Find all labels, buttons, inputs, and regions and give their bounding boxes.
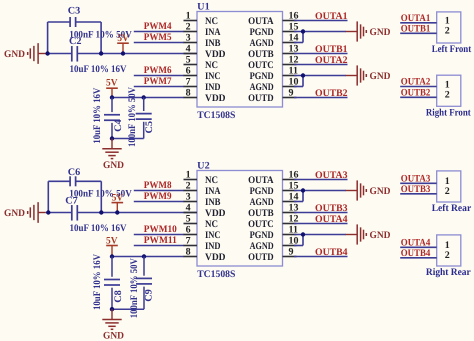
wire net OUTB1 <box>294 44 348 55</box>
capacitor C5 <box>112 86 155 147</box>
svg-text:OUTB1: OUTB1 <box>401 24 431 35</box>
svg-text:OUTB4: OUTB4 <box>401 248 431 259</box>
svg-text:C6: C6 <box>68 167 81 178</box>
ground GND <box>346 21 391 41</box>
svg-text:VDD: VDD <box>205 252 226 263</box>
svg-text:TC1508S: TC1508S <box>197 269 236 280</box>
svg-text:IND: IND <box>205 241 221 252</box>
pin 3 <box>184 192 221 208</box>
node junction <box>45 51 49 55</box>
node junction <box>110 254 114 258</box>
wire net PWM10 <box>134 224 184 235</box>
wire net PWM9 <box>134 191 184 202</box>
node junction <box>110 95 114 99</box>
svg-text:PWM4: PWM4 <box>144 21 172 32</box>
pin 1 <box>184 170 219 186</box>
pin 7 <box>184 236 221 252</box>
ground GND (earth) <box>102 309 124 341</box>
capacitor C6 <box>68 167 133 200</box>
svg-text:NC: NC <box>205 175 218 186</box>
wire net OUTA1 <box>294 11 348 22</box>
svg-text:6: 6 <box>186 66 191 77</box>
svg-text:PWM8: PWM8 <box>144 180 172 191</box>
svg-text:INA: INA <box>205 186 221 197</box>
svg-text:OUTA4: OUTA4 <box>315 214 348 225</box>
pin 14 <box>250 33 299 49</box>
wire net OUTA2 <box>400 77 437 88</box>
svg-text:VDD: VDD <box>205 93 226 104</box>
svg-text:Right Rear: Right Rear <box>426 267 471 278</box>
wire net OUTB2 <box>294 88 348 99</box>
svg-text:OUTA2: OUTA2 <box>401 77 431 88</box>
wire capacitor loop <box>48 22 102 54</box>
power ground GND (left rail) <box>4 43 46 64</box>
node junction <box>46 210 50 214</box>
svg-text:OUTB4: OUTB4 <box>315 247 348 258</box>
svg-text:AGND: AGND <box>250 38 274 49</box>
capacitor C7 <box>65 196 127 234</box>
svg-text:10uF 10% 16V: 10uF 10% 16V <box>92 87 103 144</box>
svg-text:5: 5 <box>186 214 191 225</box>
svg-text:OUTA2: OUTA2 <box>315 55 348 66</box>
svg-text:OUTA4: OUTA4 <box>401 238 431 249</box>
svg-text:10uF 10% 16V: 10uF 10% 16V <box>70 223 128 234</box>
svg-text:3: 3 <box>186 33 191 44</box>
svg-text:OUTB2: OUTB2 <box>401 88 431 99</box>
wire net PWM5 <box>134 32 184 43</box>
svg-text:9: 9 <box>289 88 294 99</box>
capacitor C8 <box>92 253 124 310</box>
svg-text:100nF 10% 50V: 100nF 10% 50V <box>129 258 140 319</box>
wire net PWM7 <box>134 76 184 87</box>
svg-text:9: 9 <box>289 247 294 258</box>
node junction <box>110 136 114 140</box>
wire pins to ground <box>294 32 346 43</box>
svg-text:GND: GND <box>370 230 391 241</box>
pin 8 <box>184 247 226 263</box>
pin 15 <box>250 22 299 38</box>
svg-text:GND: GND <box>103 160 124 171</box>
ground GND <box>346 180 391 200</box>
svg-text:OUTC: OUTC <box>248 219 274 230</box>
svg-text:PGND: PGND <box>250 71 274 82</box>
wire net OUTB4 <box>294 247 348 258</box>
pin 9 <box>248 247 296 263</box>
svg-text:PGND: PGND <box>250 230 274 241</box>
svg-text:5V: 5V <box>117 33 129 44</box>
node junction <box>99 210 103 214</box>
svg-text:OUTB: OUTB <box>248 208 274 219</box>
svg-text:2: 2 <box>445 26 450 37</box>
pin 4 <box>184 203 226 219</box>
svg-text:2: 2 <box>445 186 450 197</box>
wire net OUTB3 <box>400 184 437 195</box>
wire net PWM11 <box>134 235 184 246</box>
node junction <box>142 95 146 99</box>
power ground GND (left rail) <box>4 202 46 223</box>
pin 11 <box>250 66 298 82</box>
wire pins to ground <box>294 191 346 202</box>
wire net PWM4 <box>134 21 184 32</box>
pin 13 <box>248 203 298 219</box>
svg-text:OUTB2: OUTB2 <box>315 88 348 99</box>
svg-text:OUTB3: OUTB3 <box>401 184 431 195</box>
node junction <box>301 29 305 33</box>
svg-text:1: 1 <box>186 170 191 181</box>
pin 3 <box>184 33 221 49</box>
pin 16 <box>248 170 298 186</box>
pin 11 <box>250 225 298 241</box>
wire net OUTB4 <box>400 248 437 259</box>
svg-text:INA: INA <box>205 27 221 38</box>
svg-text:NC: NC <box>205 16 218 27</box>
svg-text:OUTA1: OUTA1 <box>315 11 348 22</box>
svg-text:C3: C3 <box>68 6 81 17</box>
pin 14 <box>250 192 299 208</box>
wire net OUTA4 <box>400 238 437 249</box>
svg-text:NC: NC <box>205 219 218 230</box>
power 5V <box>112 192 124 212</box>
svg-text:VDD: VDD <box>205 208 226 219</box>
svg-text:OUTA3: OUTA3 <box>315 170 348 181</box>
wire pins to ground <box>294 76 346 87</box>
svg-text:TC1508S: TC1508S <box>197 110 236 121</box>
pin 1 <box>184 11 219 27</box>
node junction <box>142 254 146 258</box>
pin 15 <box>250 181 299 197</box>
svg-text:INC: INC <box>205 71 221 82</box>
connector P3 Left Rear <box>432 171 472 214</box>
svg-text:GND: GND <box>370 186 391 197</box>
svg-text:IND: IND <box>205 82 221 93</box>
svg-text:PWM7: PWM7 <box>144 76 172 87</box>
wire net OUTA3 <box>400 174 437 185</box>
svg-text:8: 8 <box>186 88 191 99</box>
connector P4 Right Rear <box>426 235 471 278</box>
pin 5 <box>184 214 219 230</box>
wire net OUTB3 <box>294 203 348 214</box>
svg-text:8: 8 <box>186 247 191 258</box>
svg-text:10uF 10% 16V: 10uF 10% 16V <box>70 64 128 75</box>
svg-text:5: 5 <box>186 55 191 66</box>
pin 2 <box>184 181 222 197</box>
svg-text:INC: INC <box>205 230 221 241</box>
power 5V <box>117 33 129 54</box>
pin 9 <box>248 88 296 104</box>
pin 13 <box>248 44 298 60</box>
pin 12 <box>248 214 298 230</box>
ground GND <box>346 65 391 85</box>
svg-text:C5: C5 <box>144 121 155 134</box>
power 5V (VDD decoupling) <box>106 78 118 98</box>
pin 10 <box>250 236 299 252</box>
wire net PWM8 <box>134 180 184 191</box>
svg-text:OUTD: OUTD <box>248 252 274 263</box>
svg-text:C9: C9 <box>144 289 155 302</box>
connector P2 Right Front <box>426 75 471 118</box>
svg-text:7: 7 <box>186 236 191 247</box>
svg-text:PGND: PGND <box>250 186 274 197</box>
connector P1 Left Front <box>432 12 472 55</box>
svg-text:2: 2 <box>445 250 450 261</box>
ground GND <box>346 224 391 244</box>
svg-text:7: 7 <box>186 77 191 88</box>
svg-text:U2: U2 <box>197 160 210 171</box>
svg-text:GND: GND <box>370 27 391 38</box>
wire net OUTA3 <box>294 170 348 181</box>
svg-text:100nF 10% 50V: 100nF 10% 50V <box>127 86 138 147</box>
svg-text:PWM11: PWM11 <box>144 235 177 246</box>
IC U2 TC1508S <box>197 160 283 280</box>
svg-text:GND: GND <box>103 331 124 341</box>
svg-text:OUTA: OUTA <box>248 16 274 27</box>
svg-text:Left Front: Left Front <box>432 44 472 55</box>
svg-text:6: 6 <box>186 225 191 236</box>
svg-text:PWM5: PWM5 <box>144 32 172 43</box>
capacitor C4 <box>92 87 124 144</box>
svg-text:2: 2 <box>445 90 450 101</box>
svg-text:GND: GND <box>4 208 25 219</box>
svg-text:4: 4 <box>186 44 191 55</box>
node junction <box>301 73 305 77</box>
pin 16 <box>248 11 298 27</box>
svg-text:PWM10: PWM10 <box>144 224 177 235</box>
wire pins to ground <box>294 235 346 246</box>
svg-text:OUTA1: OUTA1 <box>401 13 431 24</box>
svg-text:OUTA: OUTA <box>248 175 274 186</box>
svg-text:U1: U1 <box>197 1 210 12</box>
svg-text:AGND: AGND <box>250 82 274 93</box>
svg-text:AGND: AGND <box>250 197 274 208</box>
svg-text:2: 2 <box>186 22 191 33</box>
node junction <box>121 51 125 55</box>
wire VDD rail <box>46 53 197 55</box>
svg-text:OUTA3: OUTA3 <box>401 174 431 185</box>
pin 6 <box>184 66 221 82</box>
svg-text:NC: NC <box>205 60 218 71</box>
pin 5 <box>184 55 219 71</box>
pin 10 <box>250 77 299 93</box>
node junction <box>110 307 114 311</box>
IC U1 TC1508S <box>197 1 283 121</box>
svg-text:INB: INB <box>205 38 221 49</box>
wire decoupling rail <box>112 256 184 258</box>
svg-text:2: 2 <box>186 181 191 192</box>
svg-text:C8: C8 <box>113 290 124 303</box>
ground GND (earth) <box>102 139 124 171</box>
svg-text:PWM6: PWM6 <box>144 65 172 76</box>
capacitor C9 <box>112 257 155 319</box>
svg-text:INB: INB <box>205 197 221 208</box>
power 5V (VDD decoupling) <box>106 236 118 257</box>
svg-text:5V: 5V <box>106 78 118 89</box>
wire capacitor loop <box>48 181 101 212</box>
svg-text:4: 4 <box>186 203 191 214</box>
svg-text:GND: GND <box>370 71 391 82</box>
pin 6 <box>184 225 221 241</box>
svg-text:OUTB: OUTB <box>248 49 274 60</box>
svg-text:Right Front: Right Front <box>426 107 471 118</box>
svg-text:C4: C4 <box>113 119 124 132</box>
node junction <box>301 188 305 192</box>
wire net OUTB1 <box>400 24 437 35</box>
svg-text:OUTB1: OUTB1 <box>315 44 348 55</box>
svg-text:AGND: AGND <box>250 241 274 252</box>
wire net OUTA2 <box>294 55 348 66</box>
pin 12 <box>248 55 298 71</box>
svg-text:OUTC: OUTC <box>248 60 274 71</box>
capacitor C3 <box>68 6 133 41</box>
wire net OUTA4 <box>294 214 348 225</box>
node junction <box>99 51 103 55</box>
svg-text:Left Rear: Left Rear <box>432 203 472 214</box>
wire decoupling rail <box>112 97 184 99</box>
node junction <box>301 232 305 236</box>
wire net OUTA1 <box>400 13 437 24</box>
svg-text:PWM9: PWM9 <box>144 191 172 202</box>
svg-text:GND: GND <box>4 49 25 60</box>
pin 2 <box>184 22 222 38</box>
node junction <box>115 210 119 214</box>
wire net PWM6 <box>134 65 184 76</box>
svg-text:PGND: PGND <box>250 27 274 38</box>
svg-text:5V: 5V <box>112 192 124 203</box>
svg-text:10uF 10% 16V: 10uF 10% 16V <box>92 253 103 310</box>
svg-text:VDD: VDD <box>205 49 226 60</box>
svg-text:1: 1 <box>186 11 191 22</box>
wire net OUTB2 <box>400 88 437 99</box>
svg-text:OUTB3: OUTB3 <box>315 203 348 214</box>
svg-text:OUTD: OUTD <box>248 93 274 104</box>
capacitor C2 <box>69 36 127 75</box>
svg-text:3: 3 <box>186 192 191 203</box>
pin 4 <box>184 44 226 60</box>
pin 7 <box>184 77 221 93</box>
wire VDD rail <box>46 212 197 214</box>
pin 8 <box>184 88 226 104</box>
